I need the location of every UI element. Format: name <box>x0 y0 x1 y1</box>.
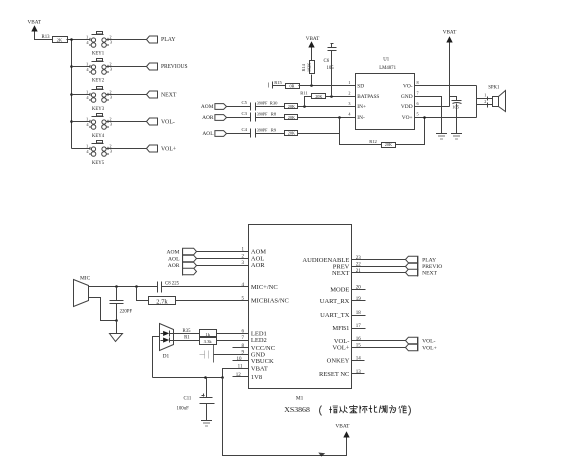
svg-text:VOL+: VOL+ <box>161 147 176 153</box>
resistor R11 20K <box>300 91 325 99</box>
wire VBAT feed bottom <box>223 378 347 456</box>
svg-text:R12: R12 <box>369 139 377 144</box>
capacitor C5 390PF <box>242 100 268 110</box>
svg-text:MODE: MODE <box>330 287 349 294</box>
svg-text:R15: R15 <box>274 80 282 85</box>
pin numbers left <box>236 248 245 378</box>
wire C8 to pin4 <box>162 286 249 288</box>
stub pin14 ONKEY <box>352 360 365 362</box>
wire VBAT rail <box>153 377 223 379</box>
svg-text:12: 12 <box>236 373 242 378</box>
svg-text:PREVIO: PREVIO <box>422 264 442 270</box>
connector stack AOM/AOL/AOR <box>166 248 196 275</box>
svg-text:20K: 20K <box>385 142 392 147</box>
stub pin12 1V8 <box>233 376 249 378</box>
svg-text:PREVIOUS: PREVIOUS <box>161 64 188 70</box>
label XS3868 (scale note) <box>284 405 410 415</box>
pin names right <box>302 257 349 378</box>
pin names left <box>251 249 289 381</box>
svg-text:C4: C4 <box>242 127 248 132</box>
wire AOM to C5 <box>227 106 251 108</box>
connector stack PLAY/PREVIO/NEXT <box>406 256 443 276</box>
svg-text:IN+: IN+ <box>357 104 366 110</box>
pushbutton KEY2 <box>86 59 113 84</box>
ground (C11) <box>201 421 212 427</box>
wire 2.7k to pin5 MICBIAS <box>176 300 249 302</box>
svg-text:3.3k: 3.3k <box>204 339 213 344</box>
svg-text:R8: R8 <box>271 112 277 117</box>
svg-text:VOL+: VOL+ <box>332 345 349 352</box>
wire key bus vertical <box>71 40 73 149</box>
svg-text:NEXT: NEXT <box>332 270 349 277</box>
wire C5 to R30 <box>256 106 285 108</box>
wire speaker stub 1 <box>477 98 493 100</box>
pushbutton KEY4 <box>86 114 113 140</box>
port AOR (amp input) <box>202 115 226 122</box>
wire pin16 to VOL- <box>352 340 406 342</box>
wire AOL up to IN- <box>298 118 340 134</box>
svg-text:NEXT: NEXT <box>161 93 177 99</box>
ground (amp GND pin) <box>436 134 447 140</box>
wire D1 to R1 <box>170 340 200 342</box>
node SD / R14 junction <box>310 84 313 87</box>
capacitor C3 390PF <box>242 111 268 121</box>
wire to ground triangle <box>116 321 118 334</box>
power flag VBAT (amp R14) <box>306 36 320 47</box>
capacitor C11 100uF <box>177 378 215 421</box>
speaker SPK1 <box>488 85 505 111</box>
stub pin17 MFB1 <box>352 328 366 330</box>
capacitor 105 (VDD bypass) <box>450 97 462 134</box>
connector stack VOL-/VOL+ <box>406 337 437 351</box>
wire pin21 to NEXT <box>352 272 406 274</box>
svg-text:D1: D1 <box>163 354 170 360</box>
wire R15 to SD pin1 <box>299 85 356 87</box>
wire AOR to pin3 <box>197 265 249 267</box>
wire IN- down to R12 <box>340 118 382 145</box>
svg-text:AOM: AOM <box>166 250 179 256</box>
svg-text:6: 6 <box>417 101 419 106</box>
wire bus to KEY5 <box>72 148 91 150</box>
svg-text:1: 1 <box>484 92 486 97</box>
svg-text:VOL+: VOL+ <box>422 345 437 351</box>
svg-text:C11: C11 <box>184 397 192 402</box>
svg-text:0R: 0R <box>290 83 295 88</box>
wire R13 to key bus <box>67 39 91 41</box>
wire pin23 to PLAY <box>352 259 406 261</box>
svg-text:20K: 20K <box>288 104 295 109</box>
svg-text:390PF: 390PF <box>257 101 268 106</box>
svg-text:2: 2 <box>484 99 486 104</box>
ground (mic, triangle) <box>110 334 123 342</box>
svg-text:2.7k: 2.7k <box>156 298 168 305</box>
svg-text:VDD: VDD <box>401 104 413 110</box>
pushbutton KEY5 <box>86 141 113 167</box>
svg-text:2K: 2K <box>57 37 63 42</box>
stub pin20 MODE <box>352 289 366 291</box>
node bus-row1 <box>70 38 73 41</box>
svg-text:MFB1: MFB1 <box>332 325 349 332</box>
svg-text:VOL-: VOL- <box>422 339 435 345</box>
svg-text:AOL: AOL <box>202 131 213 137</box>
svg-text:VBAT: VBAT <box>251 365 268 372</box>
resistor R9 20K <box>271 127 298 135</box>
wire AOM to pin1 <box>197 251 249 253</box>
capacitor (unlabeled) at R15 input <box>269 82 273 89</box>
svg-text:NEXT: NEXT <box>422 270 437 276</box>
node bus-row3 <box>70 93 73 96</box>
pushbutton KEY3 <box>86 87 113 113</box>
LED D1 (dual) <box>160 324 174 360</box>
resistor R14 102K <box>301 61 315 74</box>
svg-text:RESET NC: RESET NC <box>319 371 349 378</box>
op-amp U1 LM4871 box <box>348 58 418 130</box>
svg-text:21: 21 <box>356 269 362 274</box>
power flag VBAT (bottom) <box>335 423 350 437</box>
wire GND pin7 routing to ground <box>415 97 442 134</box>
capacitor C8 225 <box>158 281 180 292</box>
node bus-row2 <box>70 65 73 68</box>
svg-text:390PF: 390PF <box>257 112 268 117</box>
wire MIC return <box>89 298 117 321</box>
svg-text:AOR: AOR <box>168 263 180 269</box>
svg-text:PLAY: PLAY <box>161 37 176 43</box>
svg-text:1k: 1k <box>205 332 210 337</box>
wire VO- pin8 to speaker column <box>415 85 477 87</box>
svg-text:AOL: AOL <box>168 256 180 262</box>
port VOL- <box>147 118 175 126</box>
svg-text:UART_RX: UART_RX <box>320 298 350 305</box>
svg-text:KEY1: KEY1 <box>92 52 105 57</box>
wire R11 left leg down to IN+ <box>305 97 312 107</box>
wire AOL to C4 <box>227 133 251 135</box>
svg-text:VBAT: VBAT <box>306 36 320 42</box>
svg-text:M1: M1 <box>296 395 304 401</box>
svg-text:3: 3 <box>348 101 350 106</box>
wire pin9 GND <box>214 354 249 356</box>
wire VBAT stem to R13 row <box>35 32 53 40</box>
wire R11 to BATPASS pin2 <box>326 96 356 98</box>
stub pin8 VCC/NC <box>233 347 249 349</box>
wire R12 to VO+ <box>396 118 425 145</box>
svg-text:UART_TX: UART_TX <box>320 312 350 319</box>
wire pin22 to PREVIO <box>352 266 406 268</box>
resistor R30 20K <box>270 101 298 109</box>
wire MIC+ row <box>89 286 158 288</box>
stub pin19 UART_RX <box>352 300 366 302</box>
svg-text:8: 8 <box>417 80 419 85</box>
wire C4 to R9 <box>256 133 285 135</box>
node rail/pin11 <box>221 376 224 379</box>
wire speaker stub 2 <box>477 104 493 106</box>
resistor R8 20K <box>271 112 298 120</box>
svg-text:105: 105 <box>327 66 335 71</box>
wire IN- pin4 row <box>298 117 356 119</box>
svg-text:VO-: VO- <box>403 84 413 90</box>
capacitor C4 390PF <box>242 127 268 138</box>
node MIC/2.7k <box>135 285 138 288</box>
svg-text:VBAT: VBAT <box>443 29 457 35</box>
svg-text:GND: GND <box>401 94 413 100</box>
svg-text:VO+: VO+ <box>402 115 413 121</box>
wire pin15 to VOL+ <box>352 347 406 349</box>
node IN+ / R11 junction <box>303 105 306 108</box>
svg-text:220PF: 220PF <box>120 310 133 315</box>
node BATPASS / C6 junction <box>330 95 333 98</box>
node MIC/220PF <box>115 285 118 288</box>
svg-text:ONKEY: ONKEY <box>327 358 350 365</box>
svg-text:R14: R14 <box>301 63 306 71</box>
svg-text:105: 105 <box>452 104 460 109</box>
svg-text:23: 23 <box>356 256 362 261</box>
svg-text:R1: R1 <box>184 336 190 341</box>
wire C3 to R8 <box>256 117 285 119</box>
port PLAY <box>147 36 177 43</box>
wire KEY1 to PLAY <box>106 39 147 41</box>
capacitor 220PF <box>110 287 133 321</box>
svg-text:5: 5 <box>417 112 419 117</box>
node mic ground <box>115 319 118 322</box>
wire pin11 VBAT to rail <box>223 369 249 378</box>
svg-text:MICBIAS/NC: MICBIAS/NC <box>251 298 289 305</box>
capacitor C6 105 <box>324 44 337 97</box>
wire bus to KEY4 <box>72 121 91 123</box>
wire D1 to R35 <box>170 333 200 335</box>
svg-text:VBAT: VBAT <box>335 423 350 429</box>
cursor artifact <box>318 453 325 457</box>
svg-text:AOM: AOM <box>201 104 214 110</box>
wire D1 common to rail <box>153 337 160 378</box>
svg-text:VBUCK: VBUCK <box>251 358 274 365</box>
svg-text:AOR: AOR <box>202 115 214 121</box>
power flag VBAT (keys) <box>28 19 42 31</box>
module M1 XS3868 box <box>249 225 352 402</box>
svg-text:20K: 20K <box>315 94 322 99</box>
power flag VBAT (amp VDD) <box>443 29 457 42</box>
resistor R15 0R <box>274 80 299 89</box>
wire VO+ pin5 to speaker column <box>415 117 477 119</box>
svg-text:PLAY: PLAY <box>422 257 436 263</box>
pin 1 tick (speaker) <box>484 92 487 100</box>
svg-text:10: 10 <box>237 357 243 362</box>
node IN- junction <box>338 116 341 119</box>
svg-text:1: 1 <box>348 80 350 85</box>
pushbutton KEY1 <box>86 32 113 57</box>
svg-text:R13: R13 <box>42 35 51 40</box>
svg-text:20K: 20K <box>288 131 295 136</box>
svg-text:13: 13 <box>356 370 362 375</box>
svg-text:C3: C3 <box>242 111 248 116</box>
svg-text:19: 19 <box>356 297 362 302</box>
port AOL (amp input) <box>202 131 226 137</box>
svg-text:20K: 20K <box>288 115 295 120</box>
svg-text:SPK1: SPK1 <box>488 85 500 90</box>
node VO+ / R12 junction <box>423 116 426 119</box>
svg-text:R11: R11 <box>300 91 308 96</box>
port PREVIOUS <box>147 63 188 70</box>
port NEXT <box>147 91 177 99</box>
stub pin13 RESET <box>352 373 365 375</box>
wire AOR to C3 <box>227 117 251 119</box>
wire KEY5 to VOL+ <box>106 148 147 150</box>
port AOM (amp input) <box>201 104 227 111</box>
wire bus to KEY2 <box>72 66 91 68</box>
svg-text:R30: R30 <box>270 101 278 106</box>
svg-text:7: 7 <box>417 91 419 96</box>
svg-text:MIC: MIC <box>80 276 91 282</box>
wire VBAT down to VDD <box>449 43 451 107</box>
svg-text:C8 225: C8 225 <box>165 281 180 286</box>
pin numbers right <box>356 256 362 375</box>
svg-text:102K: 102K <box>306 63 311 72</box>
svg-text:R9: R9 <box>271 127 277 132</box>
svg-text:IN-: IN- <box>357 115 365 121</box>
svg-text:VBAT: VBAT <box>28 19 42 25</box>
svg-text:KEY3: KEY3 <box>92 107 105 112</box>
resistor R12 20K <box>369 139 395 147</box>
resistor R1 3.3k <box>184 336 216 345</box>
svg-text:C6: C6 <box>324 59 330 64</box>
svg-text:16: 16 <box>356 337 362 342</box>
svg-text:XS3868: XS3868 <box>284 405 310 414</box>
wire speaker column vertical <box>476 86 478 118</box>
resistor R13 2K <box>42 35 68 42</box>
svg-text:C5: C5 <box>242 100 248 105</box>
svg-text:MIC+/NC: MIC+/NC <box>251 284 278 291</box>
wire grey drop (GND net) <box>213 345 215 363</box>
wire KEY3 to NEXT <box>106 94 147 96</box>
wire R35 to pin6 LED1 <box>217 333 249 335</box>
wire R30 to IN+ pin3 <box>298 106 356 108</box>
wire VDD pin6 to VBAT <box>415 106 450 108</box>
capacitor (faint, GND) <box>200 351 209 359</box>
wire KEY2 to PREVIOUS <box>106 66 147 68</box>
wire R14 to SD <box>311 75 313 86</box>
pin 2 tick (speaker) <box>484 99 487 108</box>
svg-text:1V8: 1V8 <box>251 374 262 381</box>
port VOL+ <box>147 145 177 153</box>
svg-text:SD: SD <box>357 84 364 90</box>
resistor R35 1k <box>183 329 217 337</box>
stub pin18 UART_TX <box>352 315 366 317</box>
microphone MIC <box>74 276 91 307</box>
svg-text:KEY5: KEY5 <box>92 161 105 166</box>
stub pin10 VBUCK <box>233 360 249 362</box>
wire R1 to pin7 LED2 <box>217 340 249 342</box>
svg-text:2: 2 <box>348 91 350 96</box>
svg-text:R35: R35 <box>183 329 192 334</box>
wire cap to R15 <box>273 85 286 87</box>
svg-text:U1: U1 <box>383 58 389 63</box>
svg-text:100uF: 100uF <box>177 407 190 412</box>
svg-text:LED2: LED2 <box>251 337 267 344</box>
node bus-row4 <box>70 120 73 123</box>
svg-text:BATPASS: BATPASS <box>357 94 379 100</box>
svg-text:KEY4: KEY4 <box>92 134 105 139</box>
svg-text:AOR: AOR <box>251 262 265 269</box>
wire VBAT to R14 <box>311 48 313 61</box>
ground (VDD bypass cap) <box>451 134 462 140</box>
svg-text:LM4871: LM4871 <box>379 66 396 71</box>
svg-text:390PF: 390PF <box>257 127 268 132</box>
wire bus to KEY3 <box>72 94 91 96</box>
wire AOL to pin2 <box>197 258 249 260</box>
resistor 2.7k (mic bias) <box>137 287 176 306</box>
node rail/C11 <box>204 376 207 379</box>
svg-text:KEY2: KEY2 <box>92 79 105 84</box>
wire KEY4 to VOL- <box>106 121 147 123</box>
svg-text:VOL-: VOL- <box>161 120 175 126</box>
